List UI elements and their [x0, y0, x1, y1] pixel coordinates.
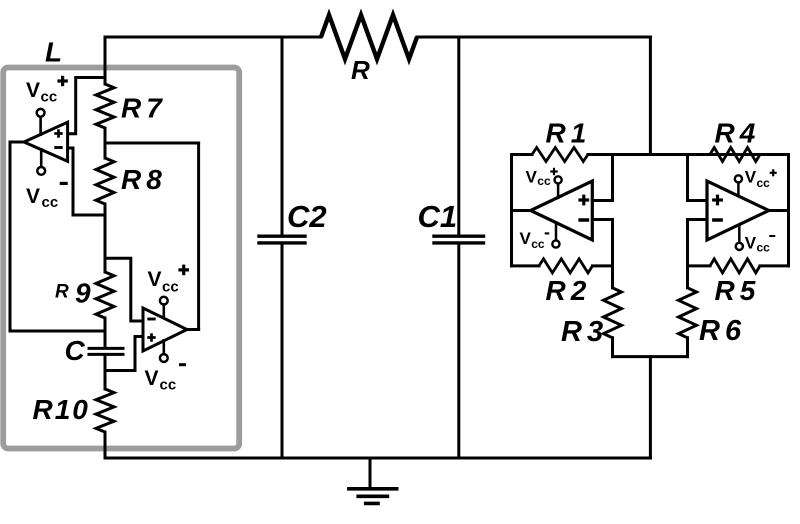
op-amp U3 plus mark [578, 198, 589, 201]
svg-text:V: V [148, 268, 162, 291]
resistor R [321, 15, 417, 59]
resistor R9 [96, 272, 114, 318]
U1 Vcc+ terminal [39, 117, 42, 135]
wire R7-R8 [104, 128, 107, 158]
op-amp U1 plus mark [54, 132, 62, 135]
wire U3 plus input [592, 199, 612, 202]
svg-text:V: V [520, 229, 532, 248]
resistor R4 [710, 148, 760, 162]
wire U3 output [512, 209, 531, 212]
wire R8-R9 [104, 204, 107, 272]
svg-text:V: V [26, 79, 40, 102]
U2 Vcc+ terminal [160, 297, 168, 305]
wire U2 plus input [105, 337, 143, 371]
svg-text:R2: R2 [546, 275, 592, 306]
svg-text:R5: R5 [715, 275, 761, 306]
svg-text:cc: cc [160, 377, 177, 394]
op-amp U2 minus mark [147, 318, 155, 321]
svg-text:R4: R4 [715, 117, 761, 148]
wire R9-C [104, 318, 107, 346]
U4 Vcc- terminal [738, 225, 741, 242]
svg-text:cc: cc [531, 237, 545, 251]
wire U1 plus input [68, 78, 105, 134]
wire junction drop [649, 357, 652, 458]
wire R1 row left [512, 153, 533, 156]
svg-text:cc: cc [162, 278, 179, 295]
resistor R3 [604, 288, 622, 338]
resistor R1 [532, 148, 588, 162]
op-amp U3 [531, 181, 593, 240]
wire R3 bottom [611, 338, 614, 357]
wire U1 minus input [68, 148, 105, 215]
wire U2 minus input [105, 258, 143, 321]
wire C2 branch bottom [281, 245, 284, 459]
wire R1 row right [588, 153, 789, 156]
svg-text:cc: cc [757, 176, 771, 190]
svg-text:V: V [145, 367, 159, 390]
U1 Vcc- terminal [40, 149, 43, 167]
wire R3 top [611, 266, 614, 288]
wire block2 right vertical [787, 155, 790, 266]
wire right drop [649, 37, 652, 155]
svg-text:cc: cc [41, 89, 58, 106]
svg-text:R6: R6 [699, 315, 746, 347]
wire C1 branch top [457, 37, 460, 235]
resistor R8 [96, 158, 114, 204]
ground [369, 458, 372, 488]
resistor R5 [710, 259, 760, 273]
svg-text:C2: C2 [287, 199, 327, 234]
svg-text:cc: cc [757, 241, 771, 255]
op-amp U3 minus mark [578, 218, 589, 222]
svg-text:R: R [55, 282, 69, 303]
svg-text:C1: C1 [418, 199, 458, 234]
svg-text:V: V [26, 185, 40, 208]
wire R4 row left [688, 153, 711, 156]
wire top rail left [105, 36, 321, 39]
svg-text:V: V [526, 167, 538, 186]
wire R6 bottom [686, 338, 689, 357]
wire C1 branch bottom [457, 245, 460, 459]
wire U4 minus input [688, 220, 708, 266]
svg-text:R8: R8 [121, 164, 167, 195]
svg-text:R3: R3 [561, 316, 608, 348]
wire C2 branch top [281, 37, 284, 235]
wire bottom rail [105, 457, 650, 460]
wire U1 output [10, 142, 105, 331]
wire top rail right [417, 36, 650, 39]
op-amp U2 plus mark [147, 336, 155, 339]
op-amp U4 plus mark [712, 198, 723, 201]
wire block2 mid vertical upper [686, 155, 689, 201]
resistor R2 [539, 259, 593, 273]
capacitor C2 [259, 234, 305, 237]
capacitor C1 [434, 234, 484, 237]
resistor R6 [679, 288, 697, 338]
svg-text:R10: R10 [33, 394, 90, 425]
wire block1 mid vertical upper [611, 155, 614, 201]
U2 Vcc- terminal [163, 340, 166, 354]
op-amp U1 [24, 122, 68, 161]
op-amp U2 [143, 308, 187, 351]
svg-text:cc: cc [42, 194, 59, 211]
op-amp U4 minus mark [712, 218, 723, 222]
wire R10-bottom [104, 432, 107, 458]
wire R2 row left [512, 264, 540, 267]
wire U2 output stub [187, 328, 199, 331]
U3 Vcc+ terminal [555, 176, 562, 183]
svg-text:cc: cc [537, 174, 551, 188]
wire R5 row right [760, 264, 789, 267]
wire U4 plus input [688, 199, 708, 202]
U3 Vcc- terminal [555, 222, 558, 240]
wire R5 row left [688, 264, 711, 267]
op-amp U4 [707, 181, 769, 240]
wire left rail top [104, 37, 107, 84]
op-amp U1 minus mark [54, 146, 62, 149]
wire R2 row right [593, 264, 613, 267]
svg-text:V: V [745, 168, 757, 187]
capacitor C plates [89, 347, 123, 350]
wire U3 minus input [592, 220, 612, 266]
svg-text:C: C [65, 335, 86, 366]
wire feedback vertical [197, 143, 200, 330]
resistor R10 [96, 389, 114, 432]
U4 Vcc+ terminal [735, 175, 742, 182]
wire C-R10 [104, 356, 107, 389]
svg-text:V: V [745, 234, 757, 253]
svg-text:R1: R1 [546, 117, 592, 148]
wire R4 row right [760, 153, 789, 156]
wire R7-R8 junction feedback horizontal [105, 142, 199, 145]
subcircuit box L [3, 68, 239, 449]
svg-text:R7: R7 [121, 93, 167, 124]
resistor R7 [96, 84, 114, 128]
wire R3-R6 junction [613, 355, 688, 358]
wire U4 output [769, 209, 789, 212]
wire block1 left vertical [510, 155, 513, 266]
svg-text:R: R [351, 55, 370, 85]
wire R6 top [686, 266, 689, 288]
svg-text:L: L [45, 37, 62, 68]
svg-text:9: 9 [75, 278, 91, 309]
